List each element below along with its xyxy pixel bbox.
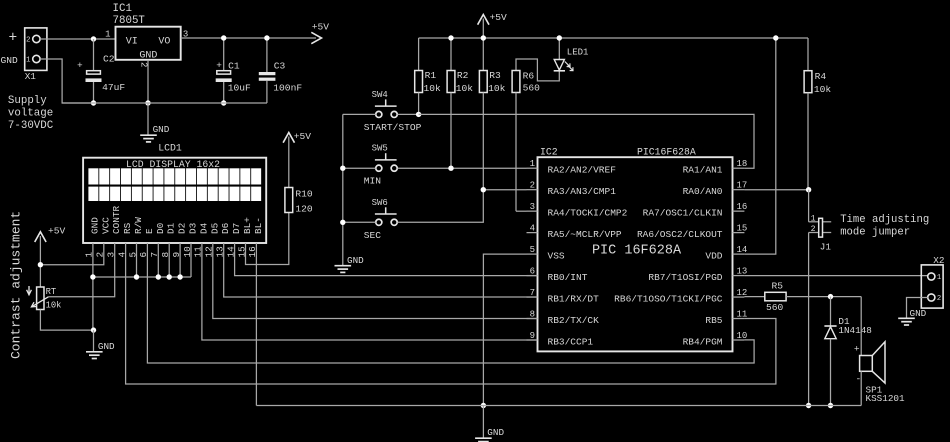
wire RA0 pin17 to R4 J1: [744, 189, 808, 191]
svg-text:17: 17: [737, 180, 748, 190]
svg-text:CONTR: CONTR: [111, 205, 122, 234]
wire lcd pin10 down: [190, 243, 192, 277]
svg-text:RS: RS: [122, 222, 133, 234]
svg-text:RB2/TX/CK: RB2/TX/CK: [548, 315, 600, 326]
lcd display box: [83, 158, 266, 243]
svg-text:SW6: SW6: [372, 198, 388, 208]
svg-text:R10: R10: [295, 189, 313, 200]
svg-text:RA4/TOCKI/CMP2: RA4/TOCKI/CMP2: [548, 208, 628, 219]
svg-text:+5V: +5V: [312, 21, 330, 32]
svg-text:10k: 10k: [456, 83, 474, 94]
svg-text:10uF: 10uF: [228, 82, 251, 93]
svg-text:J1: J1: [820, 241, 832, 252]
svg-text:LED1: LED1: [567, 48, 589, 58]
node junction rail R3 arrow: [481, 35, 486, 40]
wire lcd pin13 D6 to RB1: [224, 243, 538, 297]
ground under X2: [898, 317, 915, 319]
connector X1: [25, 28, 47, 71]
svg-text:RT: RT: [46, 287, 57, 297]
svg-text:+: +: [9, 31, 18, 47]
speaker SP1 KSS1201: [860, 297, 862, 356]
wire SW4 right to R1: [397, 113, 418, 115]
wire lcd pin14 D7 to RB0: [235, 243, 538, 276]
node junction C3 top: [264, 35, 269, 40]
svg-text:7: 7: [530, 288, 535, 298]
svg-text:SW4: SW4: [372, 90, 388, 100]
svg-text:R6: R6: [523, 70, 535, 81]
svg-text:C1: C1: [228, 60, 240, 71]
node junction VSS ground rail: [481, 403, 486, 408]
svg-text:+5V: +5V: [48, 226, 66, 237]
node junction 7805 gnd / rail: [145, 100, 150, 105]
node junction C2 bottom: [91, 100, 96, 105]
svg-text:15: 15: [737, 223, 748, 233]
svg-text:SEC: SEC: [364, 230, 382, 241]
svg-text:47uF: 47uF: [102, 82, 125, 93]
wire lcd pin12 D5 to RB2: [213, 243, 538, 319]
wire switch ground rail: [342, 114, 344, 265]
svg-text:RB4/PGM: RB4/PGM: [683, 337, 723, 348]
svg-text:D6: D6: [220, 222, 231, 234]
svg-text:16: 16: [737, 202, 748, 212]
svg-text:RB7/T1OSI/PGD: RB7/T1OSI/PGD: [648, 272, 722, 283]
jumper J1: [808, 190, 810, 222]
connector X2: [921, 265, 943, 308]
mcu pin 17 stub: [733, 189, 745, 191]
svg-text:10k: 10k: [814, 84, 832, 95]
svg-text:7-30VDC: 7-30VDC: [8, 120, 54, 132]
svg-text:9: 9: [530, 331, 535, 341]
node junction C2 top: [91, 36, 96, 41]
svg-text:10k: 10k: [488, 83, 506, 94]
svg-text:11: 11: [737, 309, 748, 319]
trimmer RT 10k: [37, 287, 44, 310]
svg-text:2: 2: [139, 62, 149, 67]
switch SW4 START/STOP: [376, 111, 382, 117]
svg-text:RB5: RB5: [705, 315, 722, 326]
mcu pin 2 stub: [527, 189, 538, 191]
svg-text:10k: 10k: [46, 301, 62, 311]
svg-text:R5: R5: [772, 281, 784, 292]
svg-text:X1: X1: [25, 71, 37, 82]
wire X2 pin2 to ground: [907, 298, 928, 319]
svg-text:13: 13: [737, 266, 748, 276]
node junction pot ground: [91, 327, 96, 332]
node junction rail VDD: [773, 35, 778, 40]
svg-text:RB6/T1OSO/T1CKI/PGC: RB6/T1OSO/T1CKI/PGC: [614, 294, 723, 305]
svg-text:RA1/AN1: RA1/AN1: [683, 165, 723, 176]
svg-text:R4: R4: [815, 71, 827, 82]
wire SW4 node to PIC RA1 pin18: [419, 114, 754, 168]
switch SW6 SEC: [376, 219, 382, 225]
node junction J1 ground rail: [806, 403, 811, 408]
svg-text:RA0/AN0: RA0/AN0: [683, 186, 723, 197]
svg-text:+: +: [77, 60, 83, 71]
svg-text:VSS: VSS: [548, 251, 565, 262]
wire VDD pin14 to +5V rail: [744, 38, 775, 254]
wire SW4 left: [343, 113, 376, 115]
svg-text:560: 560: [523, 83, 541, 94]
svg-text:3: 3: [530, 202, 535, 212]
svg-text:2: 2: [811, 225, 816, 234]
wire lcd pin8 down: [168, 243, 170, 277]
ground under 7805: [140, 134, 157, 136]
svg-text:4: 4: [530, 223, 535, 233]
wire pot bottom to ground: [40, 310, 94, 331]
capacitor C3 100nF: [266, 38, 268, 73]
node junction R3 SW6 pin2: [481, 187, 486, 192]
svg-text:R2: R2: [457, 70, 469, 81]
svg-text:GND: GND: [347, 255, 364, 266]
resistor R4 10k: [807, 38, 809, 71]
svg-text:VO: VO: [158, 37, 170, 48]
svg-text:D4: D4: [198, 222, 209, 234]
svg-text:BL-: BL-: [253, 217, 264, 234]
wire output rail 7805 to +5V arrow: [181, 37, 316, 39]
wire J1 pin2 down to ground rail: [808, 233, 810, 406]
mcu pin 6 stub: [527, 275, 538, 277]
svg-text:Supply: Supply: [8, 95, 47, 107]
svg-text:6: 6: [530, 266, 535, 276]
power +5V arrow contrast: [35, 232, 46, 242]
mcu pin 15 stub: [733, 232, 745, 234]
resistor R3 10k: [482, 38, 484, 71]
mcu pin 10 stub: [733, 339, 745, 341]
node junctions on lcd ground bus: [90, 274, 95, 279]
mcu pin 1 stub: [527, 167, 538, 169]
wire X1 pin2 to VI rail: [40, 38, 115, 40]
wire lcd pin2 VCC to +5V: [40, 243, 103, 265]
svg-text:RA2/AN2/VREF: RA2/AN2/VREF: [548, 165, 617, 176]
capacitor C2 47uF: [93, 39, 95, 71]
svg-text:VI: VI: [126, 37, 138, 48]
node junction R5 D1 SP1: [828, 294, 833, 299]
wire lcd pin6 E long route to RB4: [147, 243, 754, 363]
wire 7805 gnd stem: [147, 103, 149, 135]
resistor R5 560: [744, 296, 764, 298]
node junction rail SW5: [340, 166, 345, 171]
mcu pin 11 stub: [733, 318, 745, 320]
svg-text:PIC16F628A: PIC16F628A: [637, 147, 696, 158]
svg-text:+5V: +5V: [294, 131, 312, 142]
switch SW5 MIN: [376, 165, 382, 171]
svg-text:KSS1201: KSS1201: [866, 393, 905, 404]
svg-text:1: 1: [530, 159, 535, 169]
svg-text:IC1: IC1: [113, 3, 132, 15]
svg-text:GND: GND: [153, 124, 170, 135]
regulator IC1 7805T box: [116, 27, 181, 60]
mcu pin 9 stub: [527, 339, 538, 341]
svg-text:+: +: [216, 60, 222, 71]
svg-text:X2: X2: [933, 255, 944, 266]
svg-text:C2: C2: [103, 53, 115, 64]
node junction +5V to LCD VCC: [38, 262, 43, 267]
svg-text:BL+: BL+: [242, 217, 253, 234]
wire lcd pin5 RW down: [136, 243, 138, 277]
node junction C1 bottom: [221, 100, 226, 105]
svg-text:D2: D2: [177, 223, 188, 234]
wire lcd pin4 RS long route to RB5: [126, 243, 776, 384]
svg-text:1: 1: [811, 214, 816, 223]
mcu IC2 box: [538, 157, 733, 351]
mcu pin 5 stub: [527, 253, 538, 255]
svg-text:1: 1: [105, 30, 110, 40]
svg-text:5: 5: [530, 245, 535, 255]
svg-text:2: 2: [937, 295, 941, 303]
lcd character cells: [88, 168, 98, 184]
node junction R2 SW5: [448, 166, 453, 171]
svg-text:VCC: VCC: [100, 217, 111, 234]
svg-text:RA7/OSC1/CLKIN: RA7/OSC1/CLKIN: [643, 208, 723, 219]
mcu pin 13 stub: [733, 275, 745, 277]
wire lcd pin11 D4 to RB3: [202, 243, 538, 340]
power +5V arrow top middle: [478, 15, 489, 25]
ground under pot: [86, 351, 103, 353]
wire RB7 pin13 to X2: [744, 275, 927, 277]
svg-text:RB3/CCP1: RB3/CCP1: [548, 337, 594, 348]
svg-text:RA6/OSC2/CLKOUT: RA6/OSC2/CLKOUT: [637, 229, 723, 240]
wire lcd pin16 BL- down to ground rail: [255, 243, 257, 406]
node junction R4 RA0 J1: [806, 187, 811, 192]
svg-text:RA5/~MCLR/VPP: RA5/~MCLR/VPP: [548, 229, 622, 240]
wire lcd ground bus: [93, 276, 191, 278]
svg-text:-: -: [856, 374, 862, 385]
svg-text:100nF: 100nF: [273, 82, 302, 93]
svg-text:C3: C3: [274, 60, 286, 71]
svg-text:GND: GND: [910, 308, 927, 319]
svg-text:14: 14: [737, 245, 748, 255]
svg-text:E: E: [144, 228, 155, 234]
wire SW6 left: [343, 221, 376, 223]
svg-text:mode jumper: mode jumper: [840, 227, 910, 239]
svg-text:10: 10: [737, 331, 748, 341]
svg-text:R3: R3: [489, 70, 501, 81]
svg-text:RB0/INT: RB0/INT: [548, 272, 588, 283]
svg-text:RA3/AN3/CMP1: RA3/AN3/CMP1: [548, 186, 617, 197]
wire ground rail under caps: [62, 102, 267, 104]
wire +5V rail top: [419, 37, 808, 39]
mcu pin 3 stub: [527, 210, 538, 212]
svg-text:LCD1: LCD1: [158, 142, 182, 153]
wire lcd gnd column stem: [93, 330, 95, 351]
wire lcd pin1 GND column: [92, 243, 94, 330]
svg-text:Contrast adjustment: Contrast adjustment: [9, 211, 24, 359]
svg-text:GND: GND: [487, 427, 504, 438]
node junction R1 SW4: [416, 112, 421, 117]
node junction rail SW6: [340, 220, 345, 225]
svg-text:560: 560: [766, 302, 784, 313]
svg-text:GND: GND: [98, 341, 115, 352]
mcu pin 4 stub: [527, 232, 538, 234]
resistor R2 10k: [450, 38, 452, 71]
svg-text:GND: GND: [1, 55, 19, 66]
svg-text:D3: D3: [188, 222, 199, 234]
wire lcd pin9 down: [179, 243, 181, 277]
power +5V arrow (regulator output): [311, 32, 321, 43]
svg-text:1N4148: 1N4148: [838, 325, 871, 336]
ground bottom middle: [475, 437, 492, 439]
wire SW6 right up to PIC RA3: [397, 190, 526, 223]
mcu pin 8 stub: [527, 318, 538, 320]
node junction D1 ground rail: [828, 403, 833, 408]
svg-text:D0: D0: [155, 222, 166, 234]
svg-text:D5: D5: [209, 222, 220, 234]
svg-text:R1: R1: [425, 70, 437, 81]
mcu pin 12 stub: [733, 296, 745, 298]
mcu pin 7 stub: [527, 296, 538, 298]
svg-text:10k: 10k: [424, 83, 442, 94]
svg-text:MIN: MIN: [364, 176, 381, 187]
mcu pin 18 stub: [733, 167, 745, 169]
svg-text:START/STOP: START/STOP: [364, 122, 422, 133]
power +5V arrow above R10: [283, 133, 294, 143]
svg-text:voltage: voltage: [8, 107, 53, 119]
svg-text:1: 1: [26, 57, 30, 65]
svg-text:+: +: [854, 344, 860, 355]
svg-text:2: 2: [530, 180, 535, 190]
wire 7805 GND pin down: [147, 60, 149, 103]
svg-text:VDD: VDD: [705, 251, 722, 262]
led LED1: [558, 38, 560, 60]
wire VSS pin5 to ground: [483, 254, 526, 405]
wire X1 pin1 down to ground rail: [40, 59, 93, 103]
svg-text:7805T: 7805T: [113, 15, 146, 27]
svg-text:IC2: IC2: [540, 147, 558, 158]
capacitor C1 10uF: [223, 38, 225, 71]
svg-text:1: 1: [937, 274, 941, 282]
resistor R6 560: [516, 59, 559, 81]
svg-text:18: 18: [737, 159, 748, 169]
resistor R10 120: [285, 188, 293, 213]
resistor R1 10k: [418, 38, 420, 71]
node junction rail R2: [448, 35, 453, 40]
node junction rail LED1: [557, 35, 562, 40]
wire VSS gnd stem: [482, 406, 484, 439]
svg-text:LCD DISPLAY 16x2: LCD DISPLAY 16x2: [126, 159, 220, 170]
svg-text:GND: GND: [89, 217, 100, 234]
svg-text:R/W: R/W: [133, 217, 144, 234]
svg-text:RB1/RX/DT: RB1/RX/DT: [548, 294, 600, 305]
wire SW5 left: [343, 167, 376, 169]
node junction C1 top: [221, 35, 226, 40]
ground under switch rail: [335, 265, 352, 267]
wire SW5 right to PIC RA2: [397, 167, 526, 169]
wire lcd pin3 CONTR to pot wiper: [48, 243, 114, 297]
mcu pin 14 stub: [733, 253, 745, 255]
diode D1 1N4148: [830, 297, 832, 326]
svg-text:PIC 16F628A: PIC 16F628A: [592, 244, 682, 259]
wire bottom ground rail: [256, 405, 861, 407]
svg-text:8: 8: [530, 309, 535, 319]
svg-text:Time adjusting: Time adjusting: [840, 214, 929, 226]
mcu pin 16 stub: [733, 210, 745, 212]
wire lcd pin7 down: [157, 243, 159, 277]
svg-text:+5V: +5V: [490, 12, 508, 23]
svg-text:120: 120: [295, 203, 313, 214]
svg-text:SW5: SW5: [372, 144, 388, 154]
svg-text:D7: D7: [231, 223, 242, 234]
svg-text:D1: D1: [166, 222, 177, 234]
wire lcd pin15 BL+ to R10: [246, 213, 289, 265]
svg-text:2: 2: [26, 37, 30, 45]
